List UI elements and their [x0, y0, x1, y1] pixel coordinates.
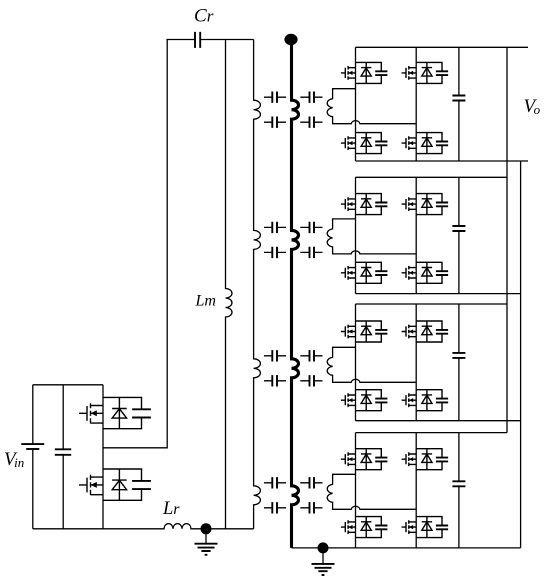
- winding secondary module 3: [327, 347, 416, 382]
- transistor Q1 input high-side: [79, 397, 151, 428]
- winding secondary module 4: [327, 474, 416, 509]
- transistor module 3 low-right with body diode and cap: [402, 390, 449, 411]
- ground: [195, 531, 218, 555]
- wire module 2 right leg: [415, 177, 417, 293]
- node input bus dot: [284, 34, 297, 45]
- capacitor coupling caps module 2 bottom row: [264, 247, 323, 258]
- wire input half-bridge leg: [102, 385, 104, 529]
- wire module 2 top rail: [356, 176, 508, 178]
- capacitor coupling caps module 3 bottom row: [264, 375, 323, 386]
- svg-text:Vin: Vin: [4, 449, 24, 470]
- transistor module 2 low-right with body diode and cap: [402, 262, 449, 283]
- transistor module 1 high-right with body diode and cap: [402, 62, 449, 83]
- transistor module 3 low-left with body diode and cap: [341, 390, 388, 411]
- capacitor coupling caps module 2 top row: [264, 222, 323, 233]
- transistor module 1 low-right with body diode and cap: [402, 133, 449, 154]
- transistor module 1 high-left with body diode and cap: [341, 62, 388, 83]
- transistor module 2 high-left with body diode and cap: [341, 194, 388, 215]
- wire module 3 top rail: [356, 303, 508, 305]
- wire module 4 right leg: [415, 433, 417, 548]
- wire input bottom rail with Lr: [33, 524, 254, 529]
- capacitor coupling caps module 1 bottom row: [264, 117, 323, 128]
- wire output plus bus: [506, 47, 508, 432]
- inductor Lm: [226, 40, 233, 529]
- wire module 1 bottom rail: [356, 160, 529, 162]
- wire module 1 top rail: [356, 46, 529, 48]
- wire module 3 left leg: [355, 304, 357, 421]
- capacitor coupling caps module 4 top row: [264, 477, 323, 488]
- capacitor output filter module 1: [452, 47, 465, 161]
- transistor module 2 high-right with body diode and cap: [402, 194, 449, 215]
- source Vin battery: [21, 385, 44, 529]
- capacitor coupling caps module 3 top row: [264, 350, 323, 361]
- svg-text:Vo: Vo: [524, 96, 541, 117]
- transistor module 4 high-right with body diode and cap: [402, 449, 449, 470]
- svg-text:Lr: Lr: [162, 499, 180, 519]
- transistor module 4 high-left with body diode and cap: [341, 449, 388, 470]
- ground: [312, 550, 335, 575]
- transistor module 1 low-left with body diode and cap: [341, 133, 388, 154]
- wire output minus bus: [520, 161, 522, 548]
- capacitor input filter: [55, 385, 71, 529]
- wire input top rail: [33, 384, 103, 386]
- capacitor coupling caps module 1 top row: [264, 92, 323, 103]
- wire module 3 right leg: [415, 304, 417, 421]
- wire top rail of resonant tank: [166, 39, 253, 41]
- node ground dot A: [201, 523, 212, 534]
- wire module 1 left leg: [355, 47, 357, 161]
- transistor module 4 low-left with body diode and cap: [341, 517, 388, 538]
- winding secondary module 1: [327, 89, 416, 124]
- wire module 1 right leg: [415, 47, 417, 161]
- wire module 2 left leg: [355, 177, 357, 293]
- transistor Q2 input low-side: [79, 469, 151, 500]
- wire module 3 bottom rail: [356, 420, 521, 422]
- transistor module 4 low-right with body diode and cap: [402, 517, 449, 538]
- wire thick center bus with windings: [292, 37, 299, 548]
- transistor module 3 high-left with body diode and cap: [341, 321, 388, 342]
- wire module 2 bottom rail: [356, 293, 521, 295]
- transistor module 3 high-right with body diode and cap: [402, 321, 449, 342]
- wire half-bridge midpoint to Cr: [103, 40, 167, 448]
- svg-text:Lm: Lm: [195, 293, 216, 310]
- capacitor output filter module 2: [452, 177, 465, 293]
- capacitor output filter module 3: [452, 304, 465, 421]
- wire module 4 bottom rail / ground rail: [292, 547, 521, 549]
- svg-text:Cr: Cr: [194, 6, 214, 27]
- winding secondary module 2: [327, 219, 416, 254]
- capacitor coupling caps module 4 bottom row: [264, 502, 323, 513]
- wire module 4 top rail: [356, 432, 508, 434]
- wire module 4 left leg: [355, 433, 357, 548]
- wire primary loop with series windings: [254, 40, 261, 529]
- transistor module 2 low-left with body diode and cap: [341, 262, 388, 283]
- node ground dot B: [318, 542, 329, 553]
- capacitor Cr plates: [195, 32, 200, 48]
- capacitor output filter module 4: [452, 433, 465, 548]
